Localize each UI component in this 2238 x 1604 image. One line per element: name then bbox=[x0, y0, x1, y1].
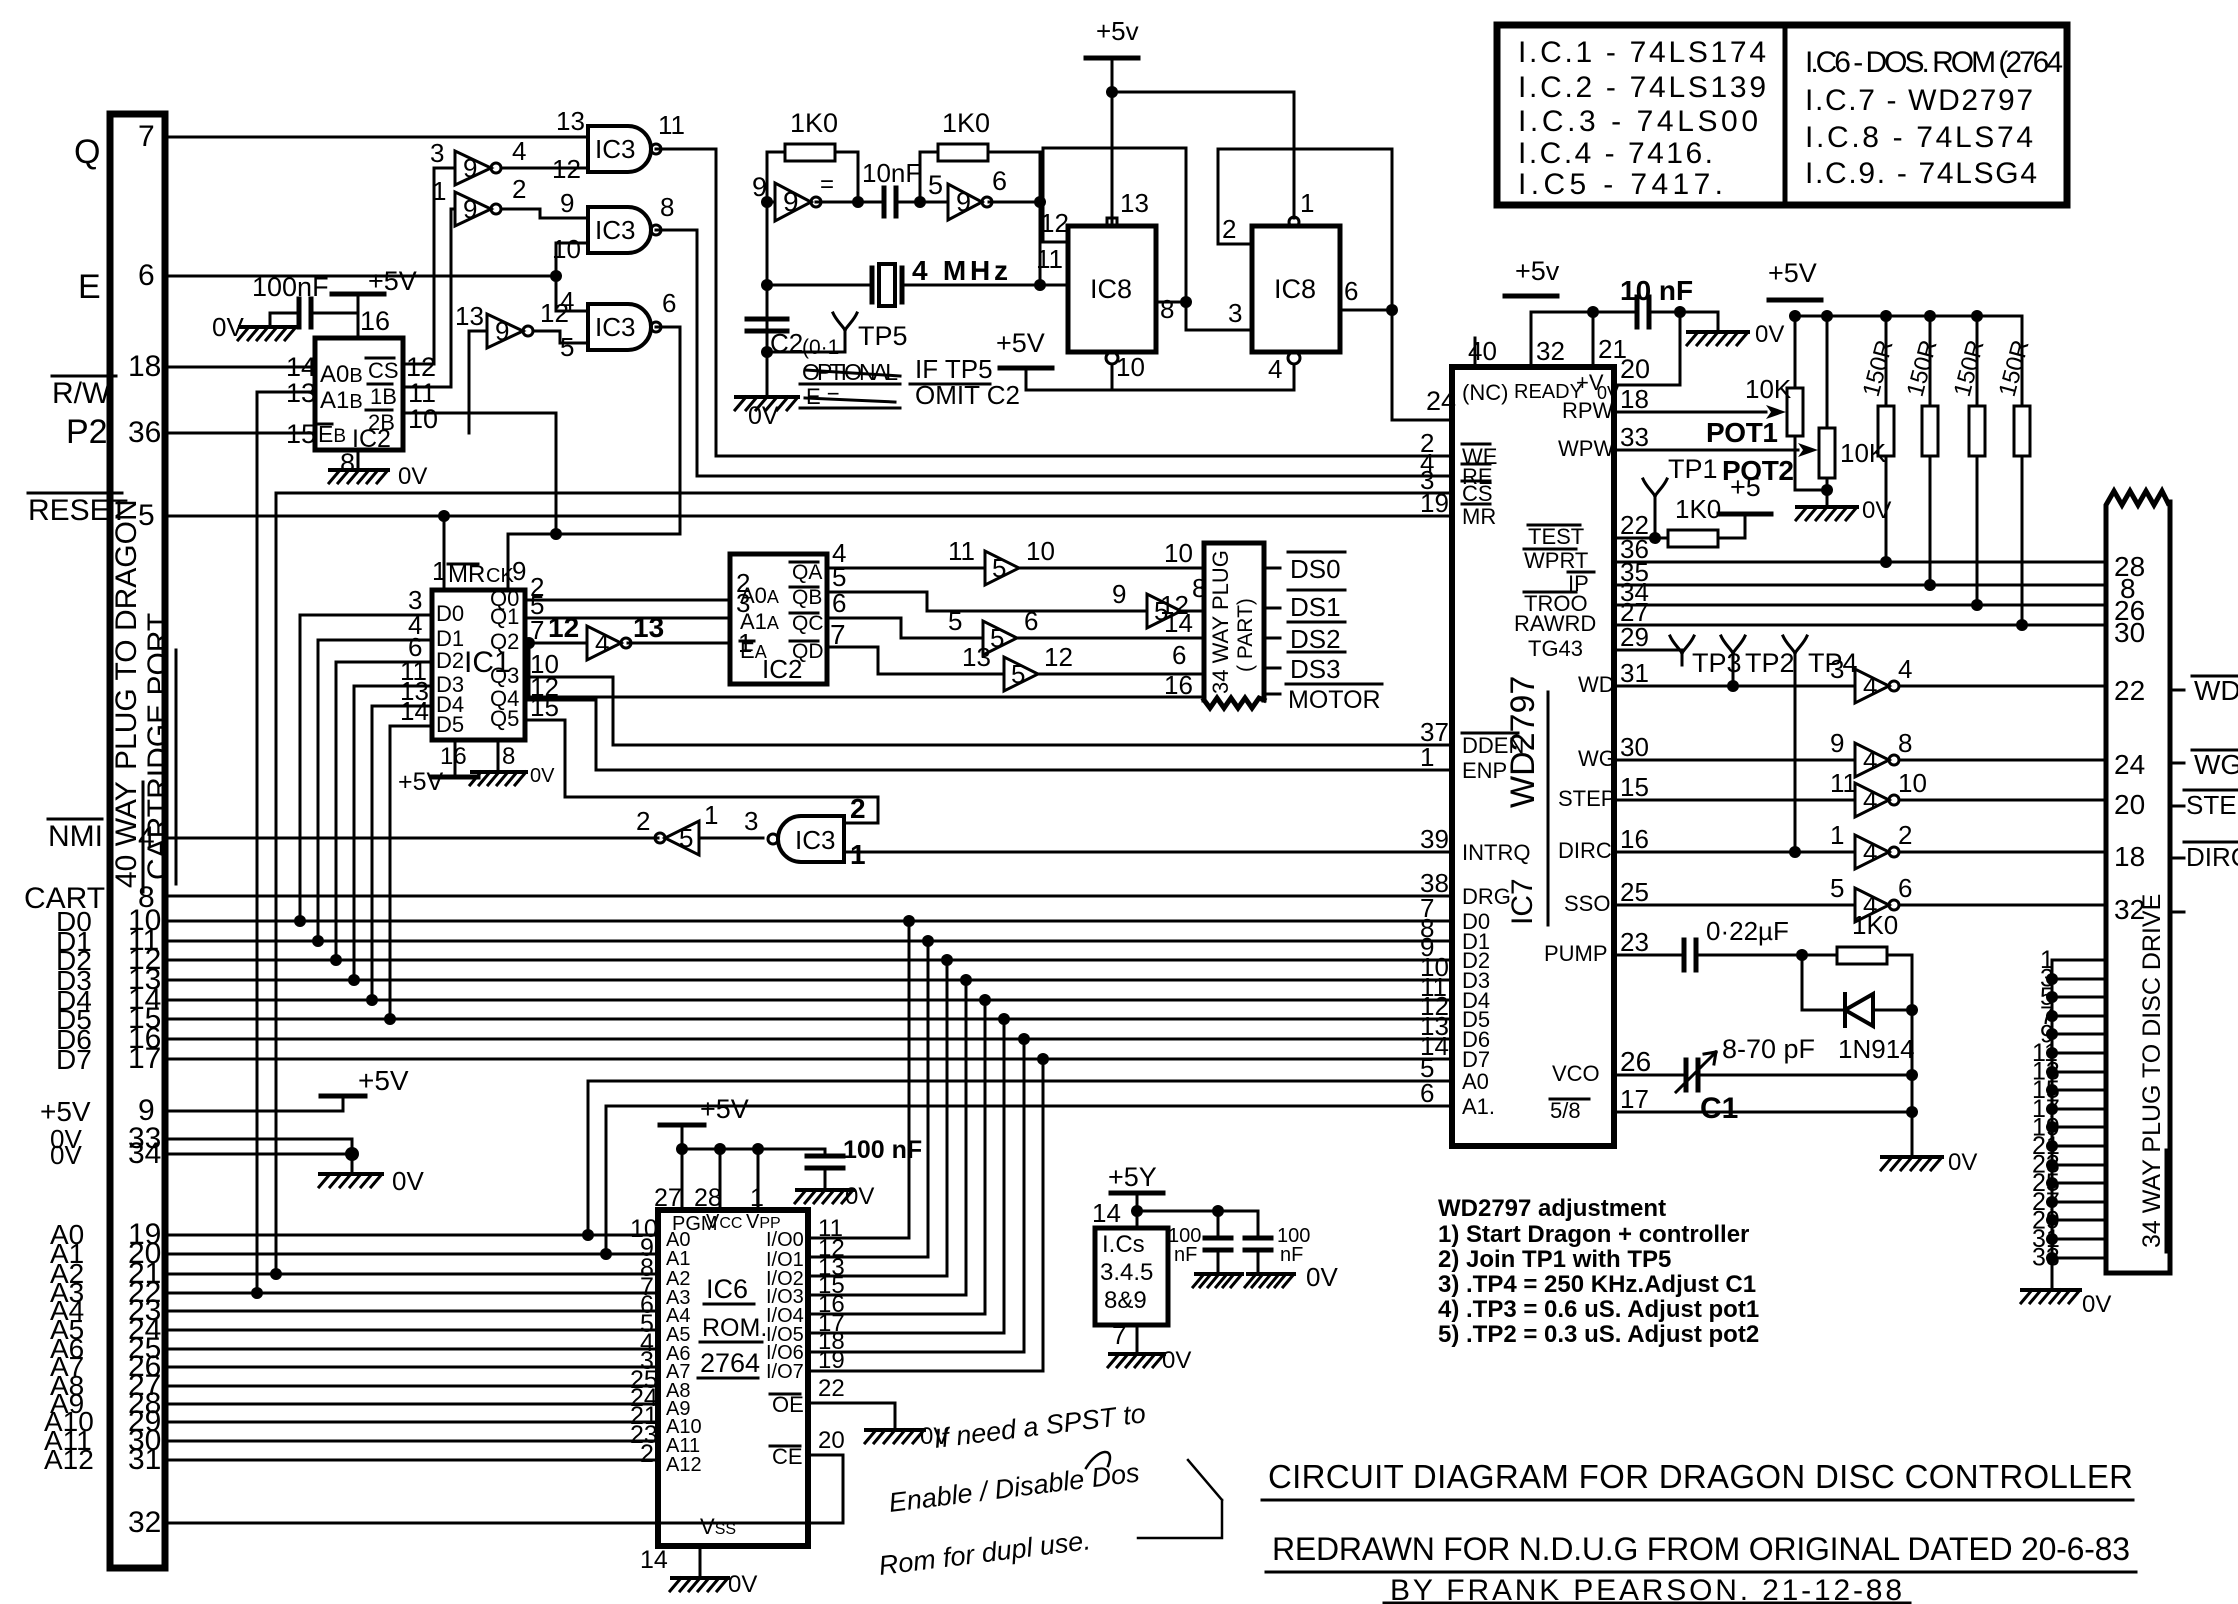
svg-text:I.C.7 - WD2797: I.C.7 - WD2797 bbox=[1805, 84, 2033, 117]
svg-text:6: 6 bbox=[1344, 276, 1358, 306]
pin 5 label J3 bbox=[2040, 983, 2054, 1011]
inverter IC4 WD pins 3-4 bbox=[1855, 669, 1889, 703]
wire buffer10 to DS0 pin10 bbox=[1019, 567, 1204, 570]
wire WG inverter out to connector pin24 bbox=[1899, 759, 2106, 762]
svg-text:1: 1 bbox=[432, 556, 446, 586]
wire P2 pin36 to IC2B EB bbox=[165, 432, 315, 435]
resistor 150R #2 bbox=[1922, 406, 1938, 456]
junction rail pin21 bbox=[1587, 306, 1599, 318]
pin 16 label J1 bbox=[128, 1022, 161, 1055]
svg-text:7: 7 bbox=[830, 619, 846, 650]
svg-text:23: 23 bbox=[1620, 927, 1649, 957]
svg-text:0·22µF: 0·22µF bbox=[1706, 916, 1789, 946]
resistor 150R #3 bbox=[1969, 406, 1985, 456]
wire vertical down to ground bbox=[1911, 1010, 1914, 1155]
node +5V label bbox=[40, 1096, 91, 1127]
pin 24 label J1 bbox=[128, 1313, 161, 1346]
svg-text:+5: +5 bbox=[1730, 472, 1761, 502]
pin 7 label ICs bbox=[1112, 1320, 1126, 1350]
pin 4 IC8b clear bbox=[1268, 354, 1282, 384]
svg-text:ROM.: ROM. bbox=[702, 1314, 767, 1342]
svg-text:IC3: IC3 bbox=[595, 215, 635, 245]
pin 16 ROM I/O4 bbox=[818, 1291, 845, 1318]
wire pin7 to ground bbox=[1136, 1325, 1139, 1352]
node A10 label bbox=[44, 1406, 94, 1437]
svg-text:22: 22 bbox=[818, 1375, 845, 1402]
svg-text:I.C6 - DOS. ROM (2764: I.C6 - DOS. ROM (2764 bbox=[1805, 46, 2063, 79]
wire D4 bus pin to WD2797 bbox=[165, 999, 1452, 1002]
pin 25 stub J3 bbox=[2052, 1182, 2106, 1185]
pin 26 label J3 bbox=[2114, 595, 2145, 626]
inverter IC9c pins 13-12 bbox=[487, 314, 523, 348]
svg-text:E: E bbox=[78, 268, 101, 306]
pin 26 WD2797 VCO bbox=[1620, 1046, 1651, 1077]
svg-text:INTRQ: INTRQ bbox=[1462, 840, 1530, 865]
svg-text:+5V: +5V bbox=[398, 768, 444, 796]
node DS1 label bbox=[1290, 592, 1341, 622]
resistor 1K0 pump bbox=[1837, 947, 1887, 964]
svg-text:6: 6 bbox=[1172, 640, 1186, 670]
ground pump network bbox=[1882, 1155, 1942, 1159]
wire IC1 Q0 to IC2A A0A bbox=[525, 599, 730, 602]
wire Vss to ground bbox=[699, 1546, 702, 1576]
svg-text:100 nF: 100 nF bbox=[843, 1136, 922, 1164]
svg-text:33: 33 bbox=[2032, 1244, 2060, 1272]
wire NMI pin4 from inverter IC5 bbox=[165, 837, 658, 840]
pin 33 WD2797 WPW bbox=[1620, 422, 1649, 452]
svg-text:8: 8 bbox=[1160, 294, 1174, 324]
resistor 150R #1 bbox=[1878, 406, 1894, 456]
wire IC1 D0 input bbox=[300, 615, 432, 921]
wire 1K0 to +5 bbox=[1718, 516, 1745, 538]
wire 150R4 down to RAWRD bbox=[2021, 456, 2024, 625]
wire D0 bus pin to WD2797 bbox=[165, 920, 1452, 923]
pin 4 WD2797 RE bbox=[1420, 448, 1434, 478]
connector J2 34 way plug (part) bbox=[1204, 543, 1264, 708]
svg-text:2: 2 bbox=[640, 1440, 654, 1468]
wire inverterA out to cap bbox=[816, 152, 884, 202]
wire A2 pin to ROM bbox=[165, 1273, 658, 1276]
svg-text:IC8: IC8 bbox=[1090, 274, 1132, 304]
probe TP2 bbox=[1721, 636, 1745, 665]
wire 1K0 to vertical bbox=[1887, 955, 1912, 1010]
wire rail to caps bbox=[1137, 1211, 1258, 1238]
power +5v WD2797 bbox=[1505, 294, 1557, 299]
svg-text:13: 13 bbox=[1120, 188, 1149, 218]
pin 25 WD2797 SSO bbox=[1620, 877, 1649, 907]
pin 33 label J1 bbox=[128, 1122, 161, 1155]
svg-text:36: 36 bbox=[128, 416, 161, 449]
svg-text:1N914: 1N914 bbox=[1838, 1034, 1915, 1064]
wire CS line to WD2797 pin3 bbox=[276, 492, 1452, 495]
node WG label bbox=[2194, 749, 2238, 780]
title line 1 bbox=[1268, 1458, 2133, 1495]
junction diode node bbox=[1906, 1004, 1918, 1016]
svg-text:A0A: A0A bbox=[740, 583, 779, 608]
inverter IC9b pins 1-2 bbox=[455, 192, 491, 226]
svg-text:10: 10 bbox=[1898, 768, 1927, 798]
wire IC8a pin8 out bbox=[1156, 301, 1186, 304]
wire pin32 to ROM CE bbox=[165, 1455, 843, 1523]
svg-text:WPRT: WPRT bbox=[1524, 548, 1588, 573]
svg-text:NMI: NMI bbox=[48, 820, 103, 853]
capacitor C1 variable 8-70pF bbox=[1686, 1060, 1698, 1090]
svg-text:8: 8 bbox=[502, 743, 515, 770]
wire D6 vertical to ROM I/O6 bbox=[808, 1039, 1024, 1352]
wire E to NAND2 input10 bbox=[556, 243, 588, 276]
crystal 4MHz bbox=[872, 268, 902, 302]
svg-text:40 WAY: 40 WAY bbox=[110, 781, 143, 888]
junction IC8b Q bbox=[1386, 304, 1398, 316]
svg-text:2: 2 bbox=[1222, 214, 1236, 244]
svg-text:Q1: Q1 bbox=[490, 604, 519, 629]
buffer IC5c pins 5-6 bbox=[983, 621, 1017, 655]
pin 24 ROM A9 bbox=[630, 1384, 658, 1412]
svg-text:+5v: +5v bbox=[1096, 16, 1139, 46]
junction D3-IC1 bbox=[348, 974, 360, 986]
wire diode branch left bbox=[1802, 955, 1845, 1010]
junction D0-IC1 bbox=[294, 915, 306, 927]
pin 12 ROM I/O1 bbox=[818, 1235, 845, 1262]
pin 23 ROM A11 bbox=[630, 1421, 658, 1449]
svg-text:10: 10 bbox=[1026, 536, 1055, 566]
svg-text:34 WAY PLUG: 34 WAY PLUG bbox=[1208, 550, 1233, 694]
node D3 label bbox=[56, 965, 92, 996]
pin 25 label J1 bbox=[128, 1332, 161, 1365]
pin 22 label J1 bbox=[128, 1276, 161, 1309]
svg-text:11: 11 bbox=[658, 110, 685, 140]
wire A11 pin to ROM bbox=[165, 1440, 658, 1443]
pin 17 label J3 bbox=[2032, 1095, 2060, 1123]
pin 16 label J2 bbox=[1164, 670, 1193, 700]
wire A3 pin to ROM bbox=[165, 1292, 658, 1295]
svg-text:17: 17 bbox=[128, 1042, 161, 1075]
svg-text:13: 13 bbox=[962, 642, 991, 672]
svg-text:Q3: Q3 bbox=[490, 663, 519, 688]
wire A4 pin to ROM bbox=[165, 1310, 658, 1313]
svg-text:6: 6 bbox=[662, 288, 676, 318]
wire A0 branch to WD2797 pin5 bbox=[588, 1081, 1452, 1235]
pin 1 stub J3 bbox=[2052, 959, 2106, 962]
node E label bbox=[78, 268, 101, 306]
wire IC8b pin4 to +5V rail bbox=[1112, 364, 1294, 390]
IC IC8b 74LS74 bbox=[1252, 226, 1340, 352]
label WD2797 vertical bbox=[1504, 676, 1542, 808]
pin 19 WD2797 MR bbox=[1420, 488, 1449, 518]
inverter IC4 DIRC pins 1-2 bbox=[1855, 835, 1889, 869]
label CARTRIDGE PORT vertical bbox=[142, 613, 175, 880]
wire A2 branch up to CS line bbox=[275, 493, 278, 1274]
svg-text:2: 2 bbox=[636, 806, 650, 836]
IC IC1 74LS174 bbox=[432, 590, 525, 740]
svg-text:1: 1 bbox=[704, 800, 718, 830]
svg-text:0V: 0V bbox=[530, 765, 555, 787]
svg-text:1: 1 bbox=[850, 839, 866, 870]
pin labels IC2A left bbox=[740, 583, 779, 608]
label 150R #4 bbox=[1994, 337, 2035, 399]
wire IC1 D1 input bbox=[318, 640, 432, 941]
pin stub DS3 bbox=[1264, 667, 1280, 670]
pin 3 IC1 D0 bbox=[408, 585, 422, 615]
wire IC8b pin6 out bbox=[1340, 309, 1392, 312]
pin 22 WD2797 TEST bbox=[1620, 510, 1649, 540]
wire 150R top #3 bbox=[1976, 316, 1979, 406]
pin 11 IC8a clk bbox=[1036, 244, 1063, 274]
svg-text:STEP: STEP bbox=[2186, 790, 2238, 820]
wire RAWRD to connector pin30 bbox=[1614, 624, 2106, 627]
svg-text:WD: WD bbox=[1578, 672, 1615, 697]
NAND IC3c pins 4,5 out 6 bbox=[588, 304, 651, 350]
inverter IC4 WG pins 9-8 bbox=[1855, 743, 1889, 777]
junction pump node bbox=[1796, 949, 1808, 961]
svg-text:CS: CS bbox=[368, 358, 399, 383]
pin 18 label J3 bbox=[2114, 841, 2145, 872]
power +5V ICs block bbox=[1111, 1191, 1163, 1196]
node DS0 label bbox=[1290, 554, 1341, 584]
svg-text:5: 5 bbox=[948, 606, 962, 636]
junction osc right bbox=[1034, 196, 1046, 208]
label 34 WAY PLUG vertical bbox=[1208, 550, 1233, 694]
pin 31 WD2797 WD bbox=[1620, 658, 1649, 688]
svg-text:QB: QB bbox=[792, 586, 822, 609]
pin 22 label J3 bbox=[2114, 675, 2145, 706]
top pins 40 32 21 bbox=[1474, 338, 1477, 367]
pin 30 label J1 bbox=[128, 1424, 161, 1457]
resistor 150R #4 bbox=[2014, 406, 2030, 456]
svg-text:0V: 0V bbox=[212, 312, 244, 342]
svg-text:8-70 pF: 8-70 pF bbox=[1722, 1034, 1815, 1064]
svg-text:10: 10 bbox=[408, 404, 438, 434]
wire A1 branch to WD2797 pin6 bbox=[606, 1106, 1452, 1254]
junction rail 1 bbox=[1131, 1205, 1143, 1217]
svg-text:1: 1 bbox=[432, 176, 446, 206]
junction D5-IC1 bbox=[384, 1013, 396, 1025]
wire to IC1 CK bbox=[508, 534, 680, 590]
svg-text:13: 13 bbox=[633, 612, 664, 643]
svg-text:MOTOR: MOTOR bbox=[1288, 686, 1381, 714]
node A1 label bbox=[50, 1238, 84, 1269]
table text I.C.8 - 74LS74 bbox=[1805, 121, 2033, 154]
pin 8 ROM A2 bbox=[640, 1254, 654, 1282]
wire cap to ground bbox=[270, 313, 299, 325]
node DS3 label bbox=[1290, 654, 1341, 684]
pin 30 label J3 bbox=[2114, 617, 2145, 648]
node A11 label bbox=[44, 1425, 92, 1456]
svg-text:14: 14 bbox=[1164, 608, 1193, 638]
svg-text:31: 31 bbox=[1620, 658, 1649, 688]
svg-text:4: 4 bbox=[1268, 354, 1282, 384]
wire P2 up to inverter13 bbox=[469, 331, 487, 433]
pin 5 stub J3 bbox=[2052, 996, 2106, 999]
wire DIRC line to inverter bbox=[1614, 851, 1855, 854]
pin 9 label J3 bbox=[2040, 1020, 2054, 1048]
wire A3 branch up to IC2B A1B bbox=[257, 392, 315, 1293]
svg-text:0V: 0V bbox=[728, 1571, 757, 1598]
label IC7 vertical bbox=[1506, 878, 1539, 925]
svg-text:D2: D2 bbox=[436, 648, 464, 673]
wire POT2 top bbox=[1826, 316, 1829, 428]
svg-text:DIRC: DIRC bbox=[2186, 842, 2238, 872]
pin 37 WD2797 DDEN bbox=[1420, 717, 1449, 747]
pin 25 ROM A8 bbox=[630, 1366, 658, 1394]
junction osc left crystal bbox=[761, 279, 773, 291]
node D1 label bbox=[56, 926, 92, 957]
svg-text:9: 9 bbox=[956, 187, 971, 217]
node A2 label bbox=[50, 1258, 84, 1289]
pin 13 label J1 bbox=[128, 963, 161, 996]
svg-text:1K0: 1K0 bbox=[942, 108, 990, 138]
svg-text:5: 5 bbox=[1011, 659, 1025, 689]
node D5 label bbox=[56, 1004, 92, 1035]
svg-text:+5v: +5v bbox=[1515, 256, 1560, 286]
pin 14 label J2 bbox=[1164, 608, 1193, 638]
wire IC8b Q down to WD2797 pin24 bbox=[1392, 310, 1452, 420]
pin 4 ROM A6 bbox=[640, 1329, 654, 1357]
pin 10 label J2 bbox=[1164, 538, 1193, 568]
pin 12 WD2797 D5 bbox=[1420, 991, 1449, 1021]
buffer IC5a pins 11-10 bbox=[985, 551, 1019, 585]
inverter IC9e osc B bbox=[948, 184, 982, 220]
pin 28 label J3 bbox=[2114, 551, 2145, 582]
wire IC8a pin10 to +5V rail bbox=[1026, 364, 1112, 390]
svg-text:A0B: A0B bbox=[320, 361, 363, 388]
junction rail 2 bbox=[1212, 1205, 1224, 1217]
pin 8 label J3 bbox=[2120, 573, 2136, 604]
svg-text:CARTRIDGE PORT: CARTRIDGE PORT bbox=[142, 613, 175, 880]
pin stub MOTOR bbox=[1264, 693, 1280, 696]
junction D1-IC1 bbox=[312, 935, 324, 947]
pin 39 WD2797 INTRQ bbox=[1420, 824, 1449, 854]
svg-text:QA: QA bbox=[792, 561, 822, 584]
junction A1 to WD2797 A1 bbox=[600, 1248, 612, 1260]
wire 0V pin34 bbox=[165, 1153, 352, 1156]
pin 38 WD2797 DRG bbox=[1420, 868, 1449, 898]
svg-text:VCC: VCC bbox=[706, 1211, 742, 1233]
pin 9 label J1 bbox=[138, 1094, 155, 1127]
wire IC8b D loop from Q- bbox=[1218, 149, 1392, 310]
wire STEP line to inverter bbox=[1614, 799, 1855, 802]
pin 13 IC1 D4 bbox=[400, 676, 429, 706]
svg-text:(NC): (NC) bbox=[1462, 380, 1508, 405]
pin 6 IC1 D2 bbox=[408, 632, 422, 662]
svg-text:0V: 0V bbox=[845, 1183, 874, 1210]
junction RESET to IC1 MR bbox=[438, 510, 450, 522]
svg-text:DDEN: DDEN bbox=[1462, 733, 1524, 758]
svg-text:( PART): ( PART) bbox=[1234, 598, 1257, 672]
inverter IC4a pins 12-13 bbox=[587, 626, 621, 660]
svg-text:3: 3 bbox=[430, 138, 444, 168]
ground IC1 bbox=[472, 770, 526, 774]
wire A6 pin to ROM bbox=[165, 1348, 658, 1351]
wire A9 pin to ROM bbox=[165, 1403, 658, 1406]
pin 12 label J1 bbox=[128, 943, 161, 976]
svg-text:VCO: VCO bbox=[1552, 1061, 1600, 1086]
svg-text:+5Y: +5Y bbox=[1108, 1162, 1157, 1192]
svg-text:5) .TP2 = 0.3 uS. Adjust pot2: 5) .TP2 = 0.3 uS. Adjust pot2 bbox=[1438, 1321, 1759, 1348]
svg-text:30: 30 bbox=[2114, 617, 2145, 648]
node D7 label bbox=[56, 1044, 92, 1075]
pin 4 IC1 D1 bbox=[408, 610, 422, 640]
pin 23 label J1 bbox=[128, 1294, 161, 1327]
svg-text:A1.: A1. bbox=[1462, 1094, 1495, 1119]
pin 17 stub J3 bbox=[2052, 1108, 2106, 1111]
junction IC8a Q- bbox=[1180, 296, 1192, 308]
wire IC2B 1B output to inverter1 bbox=[403, 209, 455, 387]
pin 3 label J3 bbox=[2040, 965, 2054, 993]
wire Q2 branch to MOTOR pin16 bbox=[529, 643, 1204, 697]
svg-text:2: 2 bbox=[850, 793, 866, 824]
pin stub DS0 bbox=[1264, 567, 1280, 570]
svg-text:I/O0: I/O0 bbox=[766, 1229, 804, 1251]
IC decoupling block I.Cs 3.4.5 8and9 bbox=[1095, 1228, 1168, 1325]
svg-text:MR: MR bbox=[1462, 504, 1496, 529]
ground J3 bbox=[2022, 1288, 2080, 1292]
label 150R #1 bbox=[1858, 337, 1899, 399]
pin 7 WD2797 D0 bbox=[1420, 893, 1434, 923]
svg-text:10: 10 bbox=[1116, 352, 1145, 382]
junction 5/8 node bbox=[1906, 1106, 1918, 1118]
pin 2 IC1 Q0 bbox=[530, 572, 544, 602]
junction osc midA bbox=[852, 196, 864, 208]
wire D3 vertical to ROM I/O3 bbox=[808, 980, 966, 1295]
pin 6 label J2 bbox=[1172, 640, 1186, 670]
svg-text:IC7: IC7 bbox=[1506, 878, 1539, 925]
pin 5 label J1 bbox=[138, 499, 155, 532]
node STEP label bbox=[2186, 790, 2238, 820]
node CART label bbox=[24, 882, 105, 915]
pin stub DS2 bbox=[1264, 637, 1280, 640]
pin 18 label J1 bbox=[128, 350, 161, 383]
pin labels IC2A right QA QB QC QD bbox=[792, 561, 822, 584]
svg-text:8&9: 8&9 bbox=[1104, 1287, 1147, 1314]
wire 150R top #4 bbox=[2021, 316, 2024, 406]
junction pots gnd bbox=[1821, 484, 1833, 496]
svg-text:RAWRD: RAWRD bbox=[1514, 611, 1596, 636]
svg-text:ENP: ENP bbox=[1462, 758, 1507, 783]
note OPTIONAL IF TP5 OMIT C2 bbox=[802, 359, 898, 385]
svg-text:DS2: DS2 bbox=[1290, 624, 1341, 654]
pin 11 label J3 bbox=[2032, 1039, 2058, 1067]
svg-text:24: 24 bbox=[2114, 749, 2145, 780]
pin 14 ROM Vss bbox=[700, 1514, 736, 1539]
wire D1 vertical to ROM I/O1 bbox=[808, 941, 928, 1257]
svg-text:34 WAY PLUG TO DISC DRIVE: 34 WAY PLUG TO DISC DRIVE bbox=[2138, 894, 2166, 1248]
svg-text:15: 15 bbox=[1620, 772, 1649, 802]
svg-text:0V: 0V bbox=[1306, 1262, 1338, 1292]
inverter IC9d osc A bbox=[775, 183, 811, 221]
svg-text:4: 4 bbox=[595, 628, 609, 658]
svg-text:9: 9 bbox=[463, 153, 477, 183]
wire IC1 Q1 to IC2A A1A bbox=[525, 617, 730, 620]
ground 0V cap bbox=[240, 325, 296, 329]
ground OE bbox=[866, 1428, 924, 1432]
wire +5V pin9 bbox=[165, 1098, 343, 1111]
wire A0 pin to ROM bbox=[165, 1234, 658, 1237]
capacitor 100nF a bbox=[1217, 1211, 1220, 1238]
pin stubs J3 right bbox=[2170, 690, 2184, 912]
probe TP5 bbox=[833, 313, 857, 342]
pin 10 IC1 Q3 bbox=[530, 649, 559, 679]
svg-text:C1: C1 bbox=[1700, 1092, 1738, 1125]
svg-text:nF: nF bbox=[1280, 1244, 1303, 1266]
pin 18 ROM I/O6 bbox=[818, 1328, 845, 1355]
svg-text:12: 12 bbox=[548, 612, 579, 643]
pin 30 WD2797 WG bbox=[1620, 732, 1649, 762]
pin 15 stub J3 bbox=[2052, 1089, 2106, 1092]
svg-text:POT1: POT1 bbox=[1706, 417, 1778, 448]
power +5V IC2 pin16 bbox=[332, 292, 384, 297]
node A0 label bbox=[50, 1219, 84, 1250]
